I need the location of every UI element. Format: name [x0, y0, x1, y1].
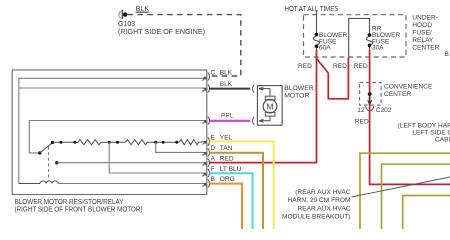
svg-text:BLK: BLK — [220, 81, 233, 88]
svg-text:HOOD: HOOD — [412, 22, 432, 29]
svg-text:B: B — [211, 176, 216, 183]
wire internal ground bus (left vertical with top pin C row) — [19, 78, 206, 183]
svg-text:30A: 30A — [372, 45, 384, 52]
box underhood fuse/relay center (dashed) — [304, 15, 407, 57]
pin B arrow and connector — [203, 180, 210, 188]
svg-text:D: D — [211, 145, 216, 152]
pin C arrow and connector — [203, 73, 210, 81]
svg-text:TAN: TAN — [220, 145, 233, 152]
svg-text:HOT AT ALL TIMES: HOT AT ALL TIMES — [285, 6, 339, 13]
svg-text:RED: RED — [333, 63, 347, 70]
label CONVENIENCE CENTER — [384, 83, 433, 98]
wire DK YEL harness box 3 — [403, 196, 450, 230]
wire RED 60A fuse down to pin A row — [210, 50, 317, 163]
blower motor internal top wire with arrow — [259, 87, 270, 96]
blower motor box — [257, 86, 282, 126]
svg-text:HARN, 29 CM FROM: HARN, 29 CM FROM — [287, 197, 350, 204]
motor M1 circle — [263, 99, 277, 113]
svg-text:FUSE/: FUSE/ — [412, 29, 432, 36]
svg-text:RELAY: RELAY — [412, 37, 434, 44]
svg-text:BLK: BLK — [220, 70, 233, 77]
svg-text:A: A — [211, 155, 216, 162]
ground G103 — [119, 10, 128, 19]
wire RED branch U to bus — [317, 58, 349, 99]
svg-text:G103: G103 — [118, 21, 135, 28]
wire BLK dashed from G103 to pin C — [128, 15, 241, 76]
label BLOWER MOTOR — [284, 85, 314, 100]
svg-text:RED: RED — [355, 118, 369, 125]
svg-text:LT BLU: LT BLU — [220, 166, 242, 173]
svg-text:PPL: PPL — [221, 112, 234, 119]
label BLOWER FUSE 60A — [319, 32, 347, 52]
wire YEL — [210, 141, 274, 229]
wire DK YEL harness box 2 — [382, 164, 450, 229]
node junction dot in convenience center — [368, 92, 372, 96]
svg-text:CABIN: CABIN — [435, 137, 450, 144]
wire tap to pin F — [109, 142, 206, 173]
blower motor internal bottom wire with arrow — [259, 116, 270, 122]
arrow down in convenience center — [368, 96, 372, 105]
svg-text:RED: RED — [220, 155, 234, 162]
svg-text:BLOWER: BLOWER — [284, 85, 314, 92]
wire internal BLK row — [19, 87, 206, 89]
wire internal PPL row to switch pivot — [29, 121, 206, 153]
wire tap to pin D — [156, 142, 206, 152]
svg-text:MOTOR: MOTOR — [284, 92, 309, 99]
svg-text:(REAR AUX HVAC: (REAR AUX HVAC — [295, 189, 350, 196]
wire stub above fuse box — [316, 10, 318, 34]
label (LEFT BODY HARN ... ) — [398, 123, 450, 144]
wire BLK to blower motor — [210, 88, 251, 90]
pin D arrow and connector — [203, 149, 210, 157]
svg-text:C: C — [211, 70, 216, 77]
label pin A RED — [211, 155, 234, 162]
svg-text:RED: RED — [354, 63, 368, 70]
svg-text:LEFT SIDE OF: LEFT SIDE OF — [412, 130, 450, 137]
box convenience center (dashed) — [360, 82, 382, 105]
svg-text:UNDER-: UNDER- — [412, 14, 438, 21]
svg-text:60A: 60A — [319, 45, 331, 52]
label pin C BLK — [211, 70, 233, 77]
svg-text:C202: C202 — [376, 107, 392, 114]
label (REAR AUX HVAC HARN, 29 CM FROM REAR AUX HVAC MODULE BREAKOUT) — [282, 189, 351, 221]
pin PPL arrow and connector — [203, 117, 210, 125]
fuse F2 RR BLOWER FUSE 30A — [367, 33, 373, 51]
svg-text:B: B — [445, 51, 450, 58]
wire RED RR fuse down through C202 then right — [370, 50, 450, 184]
svg-text:BLOWER MOTOR RESISTOR/RELAY: BLOWER MOTOR RESISTOR/RELAY — [15, 199, 124, 206]
svg-text:CONVENIENCE: CONVENIENCE — [384, 83, 433, 90]
svg-text:12: 12 — [357, 107, 365, 114]
resistor chain R1 R2 R3 with junction dots — [53, 140, 205, 145]
box blower motor resistor/relay — [12, 70, 207, 195]
connector C202 symbol — [366, 106, 374, 110]
label pin E YEL — [211, 134, 233, 141]
callout line to harness note — [352, 177, 450, 197]
wire bus bar to RR fuse — [349, 18, 370, 57]
relay actuator dashed link — [48, 147, 50, 182]
svg-text:REAR AUX HVAC: REAR AUX HVAC — [297, 206, 350, 213]
svg-text:CENTER: CENTER — [384, 91, 411, 98]
label BLK (underlined) — [136, 6, 150, 13]
connector arc at blower motor PPL pin — [253, 117, 255, 125]
svg-text:RED: RED — [298, 63, 312, 70]
svg-text:ORG: ORG — [220, 176, 235, 183]
svg-text:F: F — [211, 166, 215, 173]
svg-text:YEL: YEL — [220, 134, 233, 141]
pin E arrow and connector — [203, 138, 210, 146]
pin A arrow and connector — [203, 159, 210, 167]
svg-text:E: E — [211, 134, 216, 141]
motor M1 brushes — [265, 96, 275, 116]
svg-text:(LEFT BODY HARN,: (LEFT BODY HARN, — [398, 123, 450, 130]
pin F arrow and connector — [203, 169, 210, 177]
wire LT BLU — [210, 173, 253, 229]
svg-text:(RIGHT SIDE OF FRONT BLOWER MO: (RIGHT SIDE OF FRONT BLOWER MOTOR) — [15, 207, 143, 214]
wire ORG — [210, 184, 243, 229]
label pin D TAN — [211, 145, 233, 152]
connector arc at blower motor BLK pin — [253, 85, 255, 93]
wire contact to pin A — [55, 161, 206, 164]
wire TAN — [210, 153, 264, 229]
relay switch arm — [38, 141, 54, 155]
svg-text:MODULE BREAKOUT): MODULE BREAKOUT) — [282, 214, 351, 221]
pin BLK arrow and connector — [203, 85, 210, 93]
label RR BLOWER FUSE 30A — [372, 26, 400, 52]
svg-text:CENTER: CENTER — [412, 44, 439, 51]
relay coil row to pin B — [19, 181, 206, 184]
fuse F1 BLOWER FUSE 60A — [314, 33, 320, 52]
svg-text:M: M — [266, 101, 273, 111]
wire DK YEL harness box 1 — [360, 153, 450, 229]
svg-text:(RIGHT SIDE OF ENGINE): (RIGHT SIDE OF ENGINE) — [118, 29, 205, 36]
label pin B ORG — [211, 176, 235, 183]
wire PPL to blower motor — [210, 120, 251, 122]
label pin F LT BLU — [211, 166, 242, 173]
label UNDER-HOOD FUSE/RELAY CENTER — [412, 14, 439, 51]
